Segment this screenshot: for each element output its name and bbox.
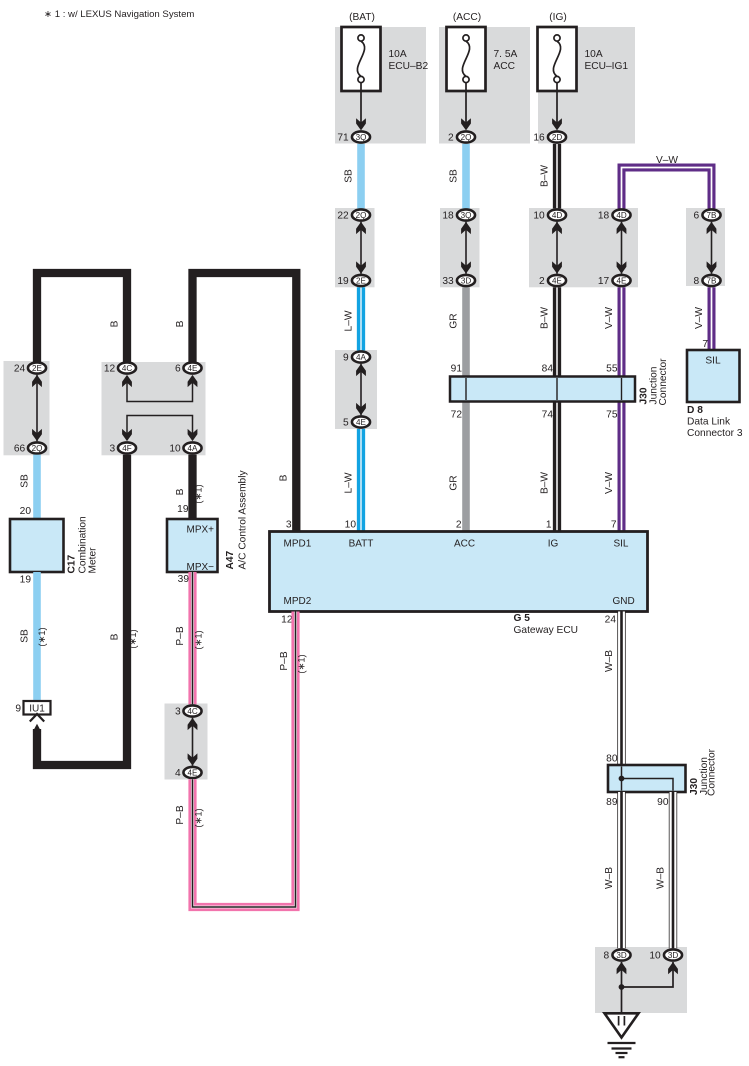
svg-text:P–B: P–B [279,651,290,670]
svg-text:2: 2 [456,520,462,531]
shade connector 2Q/2E [335,208,375,287]
arrow into IU1 [30,714,44,722]
connector 71 3Q [352,131,370,142]
connector pair 18 3Q / 33 3D [465,222,467,274]
svg-text:ACC: ACC [494,61,516,72]
connector pair 3 4C / 4 4E [192,718,194,766]
connector pair 18 4D / 17 4E [621,222,623,274]
svg-text:B–W: B–W [540,307,551,329]
svg-text:GR: GR [449,313,460,328]
svg-text:MPD1: MPD1 [284,539,312,550]
svg-text:B: B [175,488,186,495]
svg-text:SB: SB [20,629,31,643]
svg-text:33: 33 [442,276,454,287]
svg-text:4E: 4E [617,276,628,285]
shade connector 7B/7B [686,208,725,286]
svg-text:74: 74 [542,410,554,421]
svg-text:10: 10 [533,211,545,222]
svg-text:V–W: V–W [694,307,705,329]
wire B-W ECU-IG1 to 4D [553,144,561,209]
component D8 Data Link Connector 3 [687,350,740,402]
svg-text:72: 72 [451,410,463,421]
svg-text:ACC: ACC [454,539,475,550]
svg-text:ECU–IG1: ECU–IG1 [585,61,629,72]
svg-text:19: 19 [337,276,349,287]
svg-text:7. 5A: 7. 5A [494,49,518,60]
svg-text:10: 10 [169,444,181,455]
shade connector 4A/4E [335,350,377,429]
svg-text:L–W: L–W [344,310,355,331]
connector pair 10 4D / 2 4E [556,222,558,274]
svg-text:18: 18 [442,211,454,222]
svg-text:80: 80 [606,754,618,765]
svg-text:6: 6 [175,364,181,375]
svg-text:4E: 4E [356,418,367,427]
svg-text:10: 10 [649,951,661,962]
svg-text:89: 89 [606,797,618,808]
wire GR 3D to ACC pin [462,287,470,531]
wire SB 2Q to C17 [33,455,41,519]
svg-text:75: 75 [606,410,618,421]
svg-text:18: 18 [598,211,610,222]
svg-text:4E: 4E [188,364,199,373]
svg-text:W–B: W–B [604,650,615,672]
connector 9 IU1 [24,701,51,715]
svg-text:Connector 3: Connector 3 [687,428,743,439]
svg-text:3D: 3D [616,951,627,960]
wire GR through J30 [465,378,467,400]
wire L-W 4E to BATT pin [357,429,365,532]
wire B IU1 to 4F [37,455,127,765]
svg-text:A47: A47 [225,550,236,569]
svg-text:P–B: P–B [175,805,186,824]
svg-text:4E: 4E [552,276,563,285]
ground [605,1013,639,1037]
svg-text:4F: 4F [122,444,132,453]
svg-text:3: 3 [286,520,292,531]
svg-text:10A: 10A [389,49,407,60]
connector 3 4F [118,442,136,453]
svg-text:4: 4 [175,768,181,779]
wire W-B GND to J30 [617,612,625,766]
svg-text:84: 84 [542,364,554,375]
svg-text:19: 19 [20,575,32,586]
svg-text:91: 91 [451,364,463,375]
connector 6 4E [183,362,201,373]
svg-text:Gateway ECU: Gateway ECU [514,625,579,636]
svg-text:1: 1 [546,520,552,531]
svg-text:2: 2 [539,276,545,287]
svg-text:6: 6 [694,211,700,222]
svg-text:3: 3 [110,444,116,455]
svg-text:(∗1): (∗1) [36,627,47,646]
svg-text:2E: 2E [32,364,43,373]
wire B gateway loop [193,273,297,532]
connector 12 4C [118,362,136,373]
svg-text:4D: 4D [552,211,563,220]
shade connector 4D/4E [529,208,638,287]
svg-text:90: 90 [657,797,669,808]
svg-text:4A: 4A [356,353,367,362]
svg-text:5: 5 [343,418,349,429]
wire B-W 4E to IG pin [553,287,561,531]
svg-text:V–W: V–W [656,155,678,166]
shade connector 4C/4E lower [165,704,208,780]
junction connector J30 bar [450,377,635,402]
svg-text:MPX−: MPX− [186,562,214,573]
svg-text:B–W: B–W [540,165,551,187]
svg-text:GND: GND [613,596,635,607]
svg-text:20: 20 [20,506,32,517]
svg-text:2D: 2D [552,133,563,142]
component A47 A/C Control Assembly [167,519,218,572]
svg-text:4E: 4E [188,768,199,777]
svg-text:B: B [175,320,186,327]
svg-text:V–W: V–W [604,472,615,494]
svg-text:L–W: L–W [344,472,355,493]
shade connector 2E/2Q left [4,361,50,455]
svg-text:2Q: 2Q [32,444,43,453]
svg-text:4D: 4D [616,211,627,220]
svg-text:7: 7 [702,339,708,350]
svg-text:Meter: Meter [87,547,98,574]
svg-text:B: B [279,474,290,481]
svg-text:SB: SB [20,474,31,488]
svg-text:(IG): (IG) [549,12,567,23]
svg-text:(∗1): (∗1) [193,808,204,827]
svg-text:22: 22 [337,211,349,222]
svg-text:(∗1): (∗1) [193,630,204,649]
svg-text:24: 24 [14,364,26,375]
svg-text:(BAT): (BAT) [349,12,375,23]
svg-text:C17: C17 [67,554,78,573]
svg-text:3D: 3D [668,951,679,960]
svg-text:71: 71 [337,133,349,144]
svg-text:(ACC): (ACC) [453,12,481,23]
svg-text:10A: 10A [585,49,603,60]
svg-text:3D: 3D [461,276,472,285]
connector pair 24 2E / 66 2Q [36,375,38,442]
svg-text:ECU–B2: ECU–B2 [389,61,429,72]
svg-text:(∗1): (∗1) [296,654,307,673]
svg-text:4C: 4C [122,364,133,373]
svg-text:Data Link: Data Link [687,417,731,428]
svg-text:D 8: D 8 [687,405,703,416]
wire P-B A47 to 4C [188,572,196,704]
svg-text:16: 16 [533,133,545,144]
connector pair 9 4A / 5 4E [360,364,362,416]
svg-text:8: 8 [604,951,610,962]
component C17 Combination Meter [10,519,64,572]
svg-text:(∗1): (∗1) [127,629,138,648]
ground wiring [622,962,674,987]
wire W-B J30 to 3D left [617,792,625,948]
svg-text:7: 7 [611,520,617,531]
svg-text:Connector: Connector [707,748,718,796]
svg-text:W–B: W–B [656,867,667,889]
connector pair 6 7B / 8 7B [711,222,713,274]
svg-text:BATT: BATT [349,539,374,550]
wire P-B 4E to MPD2 [193,612,296,908]
svg-text:7B: 7B [707,276,717,285]
wire W-B J30 to 3D right [669,792,677,948]
shade fuse ACC [439,27,530,144]
svg-text:2: 2 [448,133,454,144]
svg-text:2E: 2E [356,276,367,285]
svg-text:P–B: P–B [175,626,186,645]
svg-text:19: 19 [177,504,189,515]
wire L-W 2E to 4A [357,287,365,350]
wire B 4A to A47 [188,455,196,519]
svg-text:(∗1): (∗1) [193,484,204,503]
svg-text:B: B [110,633,121,640]
svg-text:39: 39 [178,574,190,585]
wire B combination-meter loop [37,273,127,363]
svg-text:12: 12 [104,364,116,375]
shade fuse ECU-B2 [335,27,426,144]
svg-text:3Q: 3Q [461,211,472,220]
svg-text:SB: SB [449,169,460,183]
connector block 4C 4E 4F 4A crossover [127,376,193,402]
shade connector 3Q/3D [440,208,480,287]
svg-text:IG: IG [548,539,559,550]
svg-text:24: 24 [605,615,617,626]
wire V-W jumper 4D to 7B [622,168,712,209]
connector 10 4A [183,442,201,453]
svg-text:SIL: SIL [705,356,721,367]
svg-text:3: 3 [175,707,181,718]
junction connector J30 lower [608,765,686,792]
svg-text:B: B [110,320,121,327]
svg-text:B–W: B–W [540,472,551,494]
svg-text:G 5: G 5 [514,613,531,624]
connector 8 3D [612,949,630,960]
svg-text:8: 8 [694,276,700,287]
svg-text:10: 10 [345,520,357,531]
svg-text:A/C Control Assembly: A/C Control Assembly [238,470,249,570]
svg-text:V–W: V–W [604,307,615,329]
connector pair 22 2Q / 19 2E [360,222,362,274]
svg-text:9: 9 [343,353,349,364]
svg-text:2Q: 2Q [461,133,472,142]
connector 10 3D [664,949,682,960]
wire SB ACC to 3Q [462,144,470,209]
shade connector 4C/4E/4F/4A [102,362,206,455]
svg-text:MPX+: MPX+ [186,525,214,536]
svg-text:3Q: 3Q [356,133,367,142]
connector 16 2D [548,131,566,142]
svg-text:W–B: W–B [604,867,615,889]
shade ground connectors 3D [595,947,687,1013]
svg-text:∗ 1 : w/ LEXUS Navigation Syst: ∗ 1 : w/ LEXUS Navigation System [44,9,194,20]
svg-text:12: 12 [281,615,293,626]
wire SB C17 to IU1 [33,572,41,701]
shade fuse ECU-IG1 [538,27,635,144]
svg-text:2Q: 2Q [356,211,367,220]
svg-text:9: 9 [15,704,21,715]
svg-text:SB: SB [344,169,355,183]
connector 2 2Q [457,131,475,142]
wire V-W 7B to DLC3 [708,287,716,350]
svg-text:66: 66 [14,444,26,455]
svg-text:17: 17 [598,276,610,287]
svg-text:4A: 4A [188,444,199,453]
svg-text:4C: 4C [187,707,198,716]
wire SB ECU-B2 to 2Q [357,144,365,209]
svg-text:MPD2: MPD2 [284,596,312,607]
svg-text:Connector: Connector [658,358,669,406]
svg-text:SIL: SIL [613,539,628,550]
svg-text:55: 55 [606,364,618,375]
svg-text:7B: 7B [707,211,717,220]
svg-text:GR: GR [449,475,460,490]
component G5 Gateway ECU [270,532,648,612]
wire V-W 4E to SIL pin [618,287,626,531]
